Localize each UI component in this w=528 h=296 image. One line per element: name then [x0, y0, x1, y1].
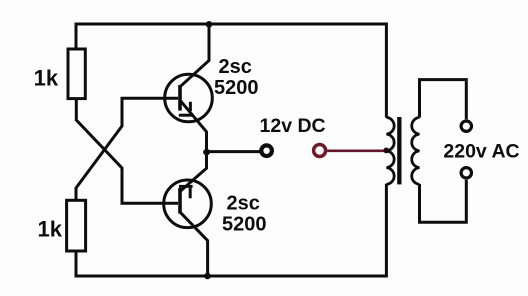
resistor R1 — [68, 49, 85, 99]
junction dot center tap — [383, 148, 389, 154]
wire secondary bottom — [420, 180, 467, 223]
svg-text:5200: 5200 — [222, 214, 267, 236]
svg-text:220v AC: 220v AC — [443, 140, 519, 162]
junction dot bottom rail — [204, 273, 211, 280]
wire top rail — [76, 24, 386, 118]
svg-text:2sc: 2sc — [219, 56, 252, 78]
transformer T1 core — [397, 117, 401, 184]
wire emitters to DC terminal — [207, 150, 260, 153]
transformer T1 secondary winding — [412, 117, 420, 184]
junction dot emitters node — [203, 149, 210, 156]
wire R2 to Q1 base — [76, 98, 178, 200]
wire center tap red — [327, 150, 386, 153]
transistor Q1 — [165, 24, 213, 152]
terminal AC top — [461, 121, 471, 131]
svg-text:1k: 1k — [38, 217, 63, 242]
junction dot top rail — [206, 21, 213, 28]
svg-text:12v DC: 12v DC — [260, 115, 326, 137]
terminal DC red — [314, 145, 326, 157]
svg-text:5200: 5200 — [214, 77, 259, 99]
transformer T1 primary winding — [386, 117, 394, 184]
wire secondary top — [420, 80, 467, 120]
wire R1 to Q2 base — [76, 99, 178, 204]
svg-text:1k: 1k — [34, 66, 59, 91]
terminal DC black — [261, 145, 272, 156]
transistor Q2 — [164, 152, 212, 276]
svg-text:2sc: 2sc — [227, 193, 260, 215]
terminal AC bottom — [461, 168, 471, 178]
wire bottom rail — [76, 184, 386, 276]
resistor R2 — [67, 200, 86, 251]
